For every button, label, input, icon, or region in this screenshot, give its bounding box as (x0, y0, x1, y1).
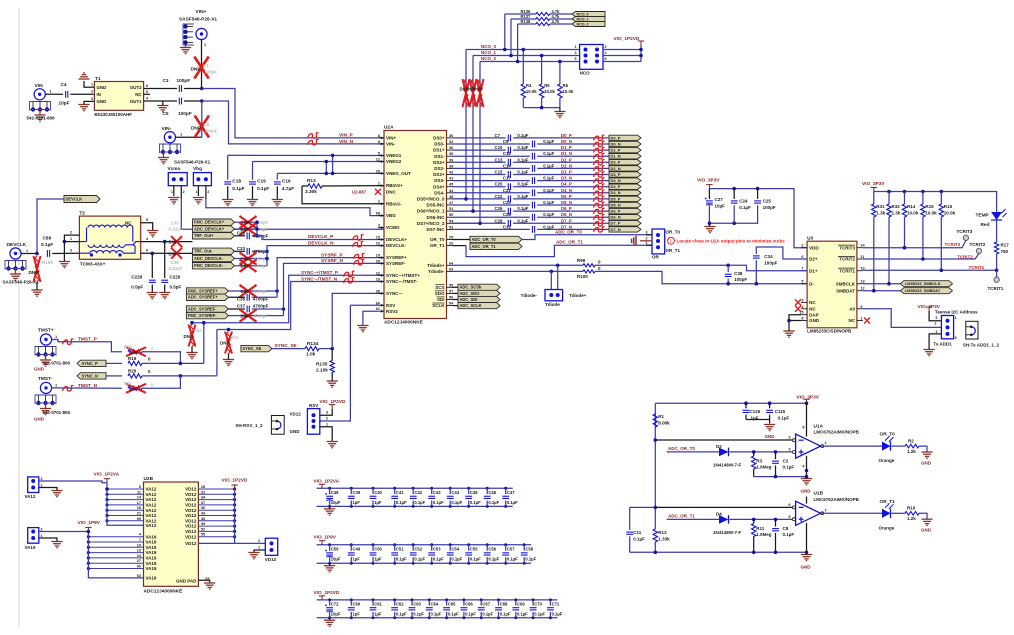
junctions (774, 469, 809, 479)
svg-text:55: 55 (201, 533, 205, 537)
svg-text:1: 1 (574, 45, 576, 49)
net-tie mark (354, 259, 365, 265)
wire Vcmo to VCMO pin (181, 198, 384, 229)
capacitor C24 (733, 189, 735, 199)
VIO_1P2VD bottom rail (317, 617, 558, 619)
wire OR_T1 (453, 245, 467, 247)
wire R15 top (922, 192, 924, 205)
capacitor C10 (507, 147, 512, 154)
svg-text:Locate close to U2A output pin: Locate close to U2A output pins to minim… (677, 238, 786, 243)
svg-text:4700pF: 4700pF (254, 264, 269, 269)
svg-text:VNEG2: VNEG2 (386, 159, 402, 164)
capacitor C37 (246, 306, 251, 313)
T1 pin1 gnd wire (84, 81, 88, 87)
ground (159, 293, 170, 299)
svg-text:6: 6 (139, 485, 141, 489)
svg-text:0.1µF: 0.1µF (470, 557, 481, 562)
svg-text:C22: C22 (495, 194, 503, 199)
svg-text:R135: R135 (316, 361, 328, 367)
svg-text:R23: R23 (231, 335, 239, 340)
VIO_1P2VD junctions (328, 598, 552, 619)
resistor R13 (302, 185, 308, 187)
Vbg pin wires (197, 186, 199, 196)
svg-text:5: 5 (378, 152, 380, 156)
svg-text:GND PAD: GND PAD (176, 579, 197, 584)
wire OUT1 to C5 (144, 100, 177, 102)
svg-text:FMC_SYSREF+: FMC_SYSREF+ (188, 288, 218, 293)
wire SYNC/TMST_P (192, 275, 384, 322)
svg-text:NCO_0: NCO_0 (481, 44, 497, 49)
connector Ts ADD1 (941, 316, 953, 339)
svg-text:C61: C61 (374, 601, 382, 606)
ground (40, 360, 51, 366)
capacitor C64 (428, 600, 430, 606)
connector J-VIN (SMA) (34, 89, 45, 100)
svg-text:SYSRF_P: SYSRF_P (321, 252, 343, 258)
ground (324, 620, 335, 626)
svg-text:TCRIT3: TCRIT3 (945, 242, 961, 247)
j (265, 250, 269, 261)
svg-text:10pF: 10pF (59, 101, 70, 107)
svg-text:0.1µF: 0.1µF (257, 186, 269, 192)
power VIO_3P3V (926, 307, 932, 311)
D7_P tag (609, 221, 641, 226)
ADC_SYSREF- tag (186, 306, 228, 312)
U1B out (821, 512, 882, 514)
svg-text:0.1µF: 0.1µF (488, 500, 499, 505)
svg-text:C3: C3 (163, 78, 169, 84)
j (275, 289, 279, 293)
chassis gnd mark (632, 236, 636, 246)
FMC_SYSREF+ tag (186, 288, 228, 294)
D6_P tag (609, 208, 641, 213)
capacitor C21 (531, 189, 536, 196)
T2 pin4 wire (141, 241, 193, 243)
rail left (654, 403, 656, 529)
svg-text:6: 6 (788, 503, 790, 507)
power VIO_1P2VD (329, 405, 335, 409)
svg-text:C23: C23 (503, 200, 511, 205)
wire D2_N (453, 167, 530, 169)
svg-text:VIO_1P2VD: VIO_1P2VD (314, 590, 340, 596)
svg-text:17: 17 (137, 501, 141, 505)
svg-text:0.1µF: 0.1µF (543, 212, 554, 217)
svg-text:SYSREF-: SYSREF- (386, 261, 406, 266)
ground (223, 360, 234, 366)
svg-text:C33: C33 (237, 246, 246, 251)
wire (235, 235, 246, 237)
svg-text:10µF: 10µF (331, 500, 341, 505)
DEVCLK tag (64, 196, 100, 203)
junctions (744, 401, 808, 405)
capacitor C56 (486, 545, 488, 551)
VIO_1P2VA top rail (317, 487, 513, 489)
svg-text:0.1µF: 0.1µF (41, 242, 53, 248)
capacitor C54 (449, 545, 451, 551)
svg-text:3: 3 (935, 316, 937, 320)
wire (235, 250, 246, 252)
wire C3 to node (184, 88, 202, 90)
svg-text:DS7+/NCO_2: DS7+/NCO_2 (417, 221, 445, 226)
svg-text:GND: GND (97, 99, 107, 104)
VIO_1P2VA bottom rail (317, 505, 513, 507)
svg-text:NCO_2: NCO_2 (481, 56, 497, 61)
LED OR_T0 (882, 436, 894, 451)
svg-text:D4_N: D4_N (611, 190, 621, 195)
ADC_DEVCLK+ tag (193, 226, 235, 232)
D7_N tag (609, 227, 641, 232)
wire 3p3 gnd rail (709, 205, 757, 223)
D1_N tag (609, 154, 641, 159)
svg-text:C45: C45 (470, 490, 478, 495)
power VIO_3P3V (706, 185, 712, 189)
svg-text:ADC_SCSb: ADC_SCSb (460, 285, 482, 290)
svg-text:D0_N: D0_N (561, 139, 572, 144)
capacitor C14 (531, 165, 536, 172)
svg-text:C71: C71 (552, 601, 560, 606)
svg-text:FMC_DEVCLK+: FMC_DEVCLK+ (194, 220, 225, 225)
wire RSV down (321, 305, 350, 421)
svg-text:C30: C30 (171, 221, 180, 226)
svg-text:C9: C9 (503, 139, 509, 144)
svg-text:Tdiode-: Tdiode- (428, 269, 445, 274)
D5_P tag (609, 196, 641, 201)
svg-text:R6: R6 (563, 83, 569, 88)
svg-text:1µF: 1µF (353, 611, 361, 616)
VIO_1P2VD top rail (317, 599, 558, 601)
capacitor C60 (350, 600, 352, 606)
svg-text:DS0+: DS0+ (433, 136, 445, 141)
svg-text:DS4-: DS4- (434, 190, 445, 195)
NCO 2 tag (572, 22, 605, 27)
svg-text:1: 1 (196, 190, 198, 194)
svg-text:0.1µF: 0.1µF (552, 611, 563, 616)
svg-text:0.1µF: 0.1µF (517, 218, 528, 223)
capacitor C71 (549, 600, 551, 606)
svg-text:D1_P: D1_P (561, 145, 572, 150)
svg-text:DEVCLK: DEVCLK (7, 242, 27, 248)
svg-text:VD12: VD12 (265, 557, 277, 562)
svg-text:NC: NC (849, 318, 856, 323)
bus join g1 (256, 222, 258, 236)
svg-text:DNP: DNP (129, 387, 138, 392)
connector VIN+ (SMA) (196, 28, 207, 39)
wire R32 top (888, 192, 890, 205)
junction (787, 319, 791, 323)
svg-text:4700pF: 4700pF (254, 313, 269, 318)
wire D1_N (453, 155, 530, 157)
T1 NC stub (144, 93, 150, 95)
svg-text:0.1µF: 0.1µF (396, 500, 407, 505)
D0_N tag (609, 141, 641, 146)
svg-text:DEVCLK+: DEVCLK+ (386, 237, 408, 242)
svg-text:0.1µF: 0.1µF (414, 557, 425, 562)
wire D1_N b (537, 155, 609, 157)
svg-text:C29: C29 (495, 218, 503, 223)
svg-text:C115: C115 (775, 409, 786, 414)
junctions (726, 282, 758, 286)
svg-text:40: 40 (201, 506, 205, 510)
svg-text:0.1µF: 0.1µF (470, 500, 481, 505)
svg-text:D3_N: D3_N (561, 176, 572, 181)
svg-text:0.1µF: 0.1µF (543, 163, 554, 168)
svg-text:60: 60 (137, 565, 141, 569)
T2 pin6 wire (141, 252, 193, 254)
DNP resistor R165 (34, 256, 41, 282)
wire 3p3 rail2 (874, 192, 997, 213)
net-tie mark (594, 166, 605, 172)
diode D4 (719, 515, 729, 524)
svg-text:VD12: VD12 (185, 518, 197, 523)
svg-text:R21: R21 (124, 381, 132, 386)
FMC_DEVCLK+ tag (193, 219, 235, 225)
capacitor C43 (431, 488, 433, 494)
svg-text:C67: C67 (482, 601, 490, 606)
junction (179, 362, 183, 366)
svg-text:0.1µF: 0.1µF (543, 200, 554, 205)
svg-text:1: 1 (955, 316, 957, 320)
wire R137 out (550, 18, 572, 20)
ground (147, 231, 158, 237)
svg-text:542-0701-806: 542-0701-806 (43, 361, 71, 366)
svg-text:VIO_3P3V: VIO_3P3V (697, 178, 720, 184)
VA19 pin2 wire (39, 531, 89, 533)
wire R136 drop (504, 14, 506, 50)
svg-text:3: 3 (378, 224, 380, 228)
svg-text:DNP: DNP (129, 350, 138, 355)
svg-text:VDD: VDD (809, 245, 819, 250)
svg-text:C39: C39 (353, 490, 361, 495)
D0_P tag (609, 135, 641, 140)
svg-text:2: 2 (934, 322, 936, 326)
VNEG stub b (325, 162, 327, 174)
wire D3_N (453, 180, 530, 182)
svg-text:DEVCLK_N: DEVCLK_N (308, 240, 334, 246)
svg-text:D0_P: D0_P (561, 133, 572, 138)
VA19 rail (88, 531, 143, 578)
svg-text:Red: Red (981, 222, 990, 228)
wire SYNC_P up (203, 323, 205, 364)
wire Tdiode+ (453, 264, 584, 266)
svg-text:16: 16 (376, 242, 380, 246)
U2B pin numbers (137, 485, 210, 581)
rail bottom (630, 551, 807, 553)
svg-text:GND: GND (97, 85, 107, 90)
capacitor C17 (531, 177, 536, 184)
ground (704, 227, 715, 233)
wire OR_T1 to conn (466, 245, 652, 256)
svg-text:0.1µF: 0.1µF (433, 500, 444, 505)
svg-text:0.1µF: 0.1µF (543, 151, 554, 156)
ground (204, 583, 215, 589)
svg-text:100pF: 100pF (177, 78, 191, 84)
svg-text:VIO_1P2VD: VIO_1P2VD (222, 478, 248, 484)
bus join g4 (283, 309, 285, 316)
wire sysref+ join (252, 296, 277, 298)
DNP capacitor C1 (194, 57, 208, 79)
capacitor C65 (446, 600, 448, 606)
junctions (550, 264, 560, 274)
ground (78, 105, 89, 111)
ADC_SCLK tag (458, 303, 500, 309)
svg-text:R100: R100 (577, 274, 588, 279)
svg-text:C2: C2 (783, 458, 789, 463)
wire DEVCLK (21, 253, 37, 255)
C16 gnd (276, 186, 278, 199)
svg-text:2: 2 (258, 539, 260, 543)
svg-text:D7_P: D7_P (561, 218, 572, 223)
capacitor C8 (775, 519, 777, 526)
svg-text:22: 22 (376, 271, 380, 275)
junction (179, 374, 183, 378)
svg-text:DS1+: DS1+ (433, 148, 445, 153)
svg-text:DEVCLK_P: DEVCLK_P (308, 234, 333, 240)
svg-text:C53: C53 (433, 547, 441, 552)
connector DEVCLK (SMA) (10, 248, 21, 259)
svg-text:VA19: VA19 (146, 534, 157, 539)
junctions (503, 48, 519, 64)
svg-text:R32: R32 (892, 204, 901, 209)
svg-text:C40: C40 (374, 490, 382, 495)
svg-text:VNEG1: VNEG1 (386, 153, 402, 158)
transformer T1 (94, 82, 143, 111)
svg-text:TMST_N: TMST_N (78, 383, 98, 389)
svg-text:0.1µF: 0.1µF (517, 611, 528, 616)
svg-text:2: 2 (801, 244, 803, 248)
ground (783, 331, 794, 337)
svg-text:DS2-: DS2- (434, 166, 445, 171)
svg-text:0.5pF: 0.5pF (170, 285, 182, 290)
svg-text:ADC_SCLK: ADC_SCLK (460, 303, 482, 308)
wire to DEVCLK tag (37, 199, 64, 254)
wire VNEG1 (228, 154, 384, 156)
wire R16 bot (940, 217, 942, 271)
ground (327, 442, 338, 448)
T2 pin1 stub (64, 241, 79, 243)
svg-text:10µF: 10µF (715, 203, 726, 208)
wire D0_N (453, 143, 530, 145)
DNP mark pin4 (171, 236, 182, 247)
Vcmo pin wires (173, 186, 175, 196)
svg-text:SH-RSV_1_2: SH-RSV_1_2 (235, 423, 263, 428)
svg-text:C56: C56 (488, 547, 496, 552)
capacitor C29 (507, 220, 512, 227)
capacitor C66 (463, 600, 465, 606)
wire D6_P b (513, 210, 609, 212)
svg-text:C59: C59 (331, 547, 339, 552)
svg-text:GND: GND (34, 366, 45, 371)
wire D7_P b (513, 222, 609, 224)
svg-text:OR_T0: OR_T0 (666, 229, 681, 234)
svg-text:VIO_1P2VA: VIO_1P2VA (314, 478, 340, 484)
power VIO_1P2VD (638, 41, 644, 45)
svg-text:DS7-/NC: DS7-/NC (426, 227, 445, 232)
svg-text:0.1µF: 0.1µF (778, 415, 790, 420)
svg-text:D7_P: D7_P (611, 221, 621, 226)
r12 bot (654, 542, 656, 552)
svg-text:0.22µF: 0.22µF (169, 227, 183, 232)
svg-text:VD12: VD12 (185, 534, 197, 539)
svg-text:D0_N: D0_N (611, 141, 621, 146)
svg-text:D1_N: D1_N (561, 151, 572, 156)
resistor R10 (905, 512, 919, 516)
svg-text:VD12: VD12 (185, 541, 197, 546)
svg-text:13: 13 (137, 549, 141, 553)
wire D5_P b (513, 198, 609, 200)
svg-text:SDI: SDI (437, 297, 445, 302)
svg-text:D1_N: D1_N (611, 154, 621, 159)
svg-text:0.1µF: 0.1µF (507, 557, 518, 562)
svg-text:VA19: VA19 (146, 540, 157, 545)
TRF_Out- tag (193, 248, 235, 254)
wire (235, 228, 258, 230)
svg-text:D-: D- (809, 281, 814, 286)
svg-text:U3: U3 (807, 235, 813, 241)
wire SMBCLK (863, 283, 901, 285)
svg-text:DNP: DNP (191, 67, 201, 73)
junction (330, 347, 334, 351)
svg-text:DNC: DNC (386, 189, 396, 194)
VA12 rail (107, 483, 144, 526)
LM95233_SMBDAT tag (900, 288, 952, 294)
ground (40, 409, 51, 415)
svg-text:VD12: VD12 (185, 524, 197, 529)
capacitor C125 (745, 403, 747, 408)
wire TCRIT2 (863, 254, 979, 260)
svg-text:ADC_SDO: ADC_SDO (460, 291, 480, 296)
wire R138 (518, 23, 536, 25)
svg-text:SCLK: SCLK (432, 303, 445, 308)
D3_P tag (609, 172, 641, 177)
svg-text:1: 1 (258, 546, 260, 550)
svg-text:1µF: 1µF (374, 557, 382, 562)
capacitor C7 (507, 135, 512, 142)
svg-text:1: 1 (41, 483, 43, 487)
svg-text:TCRIT3: TCRIT3 (839, 245, 855, 250)
wire R14 top (904, 192, 906, 205)
junction (872, 289, 876, 293)
net-tie mark (344, 271, 355, 277)
svg-text:0.1µF: 0.1µF (488, 557, 499, 562)
U2A left pin names (386, 136, 420, 314)
svg-text:VA12: VA12 (146, 503, 157, 508)
wire NCO pin4 (603, 55, 641, 57)
DNP resistor R163 (477, 79, 484, 107)
svg-text:ADC_SYSREF-: ADC_SYSREF- (188, 306, 217, 311)
svg-text:U1B: U1B (814, 491, 824, 497)
svg-text:VA12: VA12 (146, 513, 157, 518)
connector VA12 (28, 477, 39, 493)
resistor R2 (905, 444, 919, 448)
svg-text:RBIAS-: RBIAS- (386, 201, 402, 206)
wire NCO_2 drop (453, 62, 481, 224)
svg-text:R3: R3 (756, 458, 762, 463)
svg-text:0.1µF: 0.1µF (431, 611, 442, 616)
svg-text:VA19: VA19 (25, 545, 36, 550)
svg-text:C26: C26 (495, 206, 503, 211)
svg-text:SYNC~-/TMST-: SYNC~-/TMST- (386, 279, 418, 284)
svg-text:D5_N: D5_N (561, 200, 572, 205)
U2B VA12 wires (105, 487, 143, 522)
svg-text:20: 20 (376, 259, 380, 263)
wire OUT2 to C3 (144, 88, 177, 90)
svg-text:R4: R4 (526, 83, 532, 88)
svg-text:TRF_Out+: TRF_Out+ (194, 233, 214, 238)
svg-text:R134: R134 (307, 341, 319, 347)
svg-text:2: 2 (70, 230, 72, 234)
svg-text:OR_T1: OR_T1 (880, 499, 896, 505)
svg-text:ADC12J4000NKE: ADC12J4000NKE (384, 320, 423, 326)
